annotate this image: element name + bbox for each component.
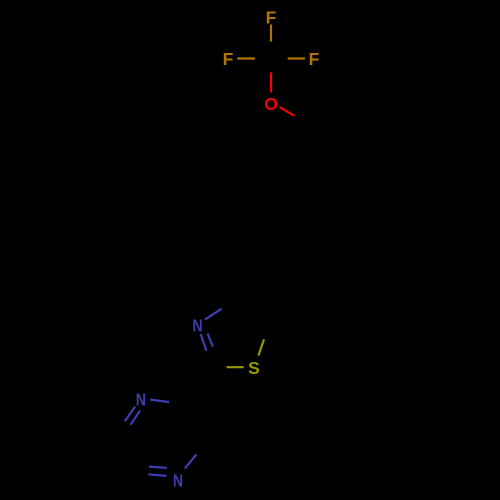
svg-text:O: O: [264, 94, 278, 114]
svg-text:N: N: [136, 390, 146, 410]
svg-text:F: F: [223, 49, 234, 69]
svg-text:S: S: [248, 358, 260, 378]
svg-text:N: N: [173, 470, 183, 490]
svg-text:F: F: [266, 8, 277, 28]
svg-text:F: F: [309, 49, 320, 69]
svg-text:N: N: [192, 316, 202, 336]
